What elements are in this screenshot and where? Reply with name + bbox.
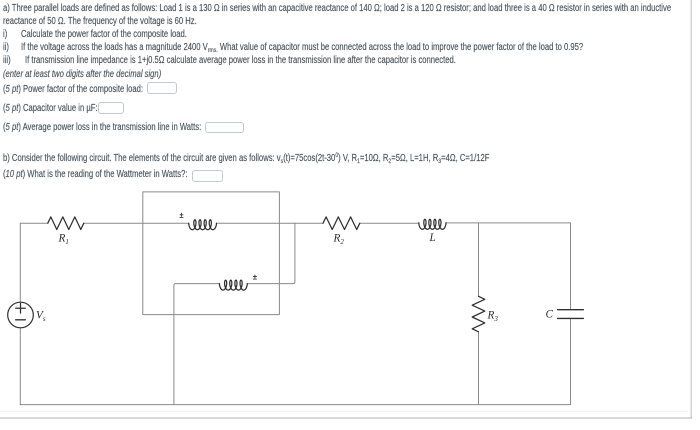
wire: voltage-coil left lead down to bottom rail bbox=[174, 284, 220, 405]
inductor: wattmeter voltage coil bbox=[219, 280, 247, 290]
wire: wattmeter coil to R2 bbox=[217, 222, 324, 224]
wire: R3 branch lower bbox=[478, 332, 480, 405]
wire: source bottom to bottom rail bbox=[19, 328, 21, 405]
inductor: wattmeter current coil bbox=[189, 220, 217, 230]
wire: C branch upper bbox=[570, 223, 572, 310]
page container right border bbox=[690, 0, 692, 418]
inductor L bbox=[419, 219, 446, 229]
svg-text:R1: R1 bbox=[58, 233, 69, 246]
wire: top left from source to R1 bbox=[20, 223, 48, 302]
svg-text:R2: R2 bbox=[333, 233, 345, 246]
source plus sign bbox=[16, 304, 26, 314]
wattmeter box bbox=[143, 192, 280, 315]
wire: bottom rail bbox=[20, 404, 570, 406]
polarity mark voltage coil bbox=[253, 275, 256, 279]
wire: R3 branch upper bbox=[478, 223, 480, 296]
svg-text:R3: R3 bbox=[487, 310, 499, 323]
wire: voltage-coil tap from top wire bbox=[247, 223, 295, 283]
page container bottom border bbox=[0, 417, 692, 419]
resistor R1 bbox=[48, 217, 84, 230]
svg-text:L: L bbox=[429, 232, 436, 244]
voltage source Vs circle bbox=[8, 302, 34, 328]
resistor R2 bbox=[323, 217, 360, 230]
wire: C branch lower bbox=[570, 318, 572, 404]
svg-text:C: C bbox=[546, 309, 554, 321]
resistor R3 bbox=[472, 296, 485, 332]
polarity mark current coil bbox=[180, 213, 183, 217]
wire: L to top-right corner bbox=[446, 222, 571, 224]
source minus sign bbox=[16, 319, 26, 321]
faint circuit image lower edge bbox=[0, 410, 688, 412]
wire: R2 to L bbox=[360, 222, 419, 224]
wire: R1 to wattmeter coil bbox=[84, 222, 189, 224]
capacitor C plates bbox=[558, 310, 584, 319]
svg-text:Vs: Vs bbox=[36, 310, 46, 323]
